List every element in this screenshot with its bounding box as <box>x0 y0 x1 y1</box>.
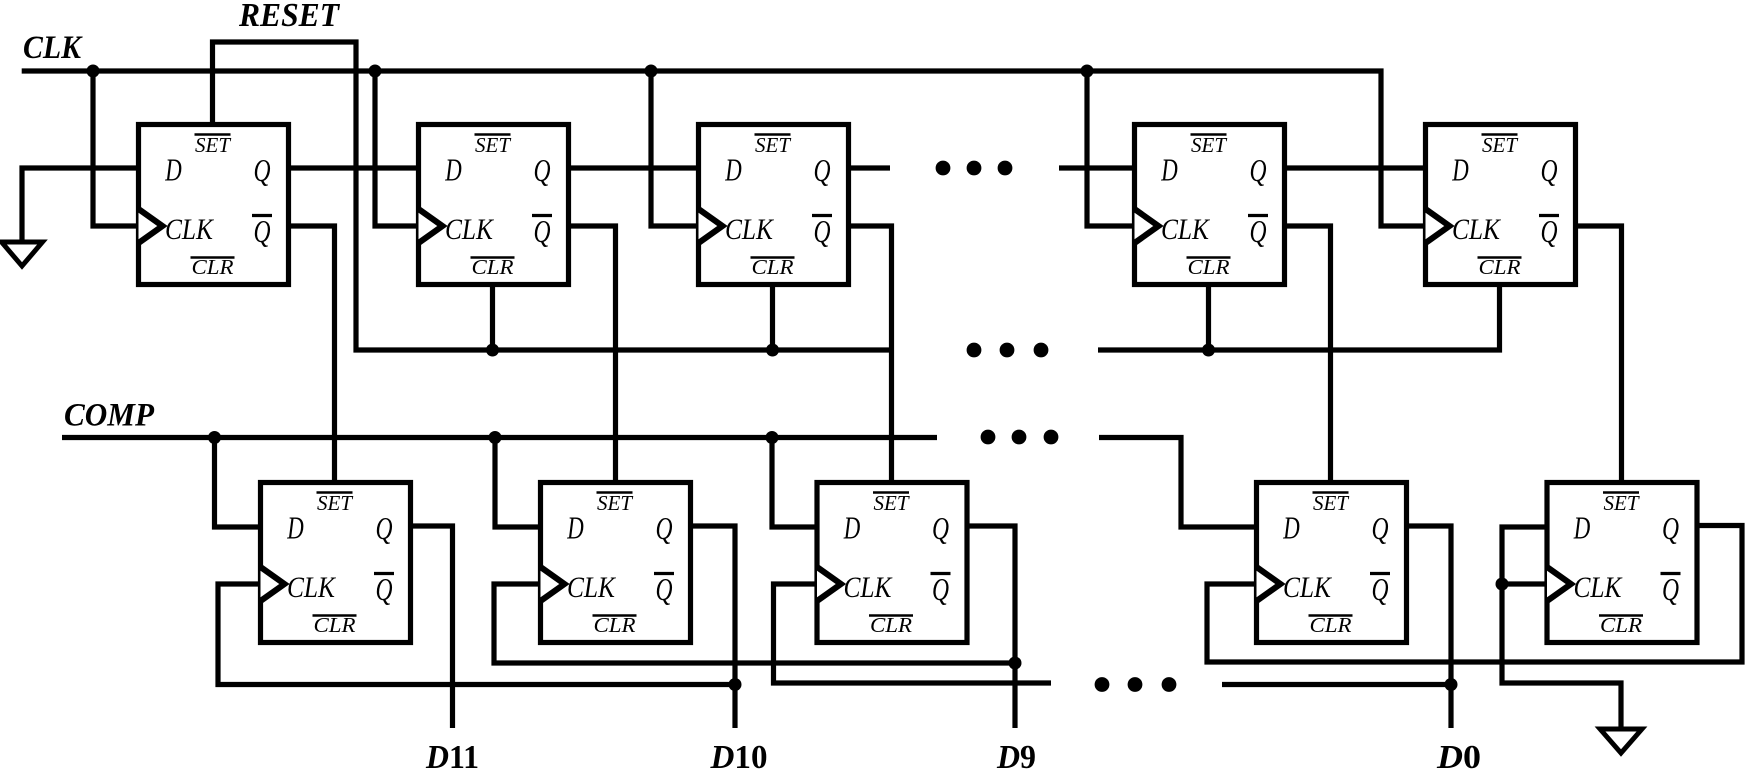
junction COMP/U6-D <box>208 431 221 444</box>
wire ellipsis to U4 D <box>1059 165 1133 170</box>
wire COMP bus right segment to U9 D <box>1099 438 1255 528</box>
wire U1 Qbar to U6 SET <box>289 226 335 481</box>
junction U7-clock/D9 <box>1009 657 1022 670</box>
svg-text:Q: Q <box>1662 510 1679 546</box>
svg-text:D10: D10 <box>710 739 768 775</box>
wire CLK to U3 clock <box>651 71 697 226</box>
wire COMP to U7 D <box>495 438 540 528</box>
D flip-flop U1 <box>139 125 289 285</box>
U7 pin label CLR (active-low overline) <box>593 614 637 617</box>
wire CLK bus (top horizontal, drops to U5 clock at right end) <box>22 71 1424 226</box>
svg-text:Q: Q <box>254 152 271 188</box>
junction RESET/U2-CLR <box>486 344 499 357</box>
junction RESET/U4-CLR <box>1202 344 1215 357</box>
U8 pin label CLR (active-low overline) <box>869 614 913 617</box>
U4 pin label Qbar <box>1248 214 1268 217</box>
U8 clock edge chevron <box>817 567 841 601</box>
junction CLK/U2 <box>369 65 382 78</box>
U3 pin label SET (active-low overline) <box>755 133 791 136</box>
U5 pin label SET (active-low overline) <box>1482 133 1518 136</box>
svg-text:CLR: CLR <box>472 255 514 279</box>
wire U4 Q to U5 D <box>1284 165 1424 170</box>
junction U6-clock/D10 <box>729 678 742 691</box>
junction CLK/U1 <box>87 65 100 78</box>
wire COMP bus (left segment) <box>62 435 937 440</box>
U9 pin label SET (active-low overline) <box>1313 491 1349 494</box>
svg-text:Q: Q <box>1250 152 1267 188</box>
wire COMP to U8 D <box>772 438 816 528</box>
svg-text:CLK: CLK <box>1574 571 1624 604</box>
wire U9 Q to node D0 <box>1405 526 1451 728</box>
svg-text:Q: Q <box>1662 571 1679 607</box>
U7 pin label SET (active-low overline) <box>597 491 633 494</box>
svg-text:CLK: CLK <box>1452 213 1502 246</box>
svg-text:Q: Q <box>254 213 271 249</box>
svg-text:CLK: CLK <box>445 213 495 246</box>
U5 pin label Qbar <box>1539 214 1559 217</box>
svg-text:CLK: CLK <box>1283 571 1333 604</box>
D flip-flop U9 <box>1257 483 1407 643</box>
ellipsis dots on CLR bus <box>967 343 982 358</box>
svg-text:CLR: CLR <box>1188 255 1230 279</box>
wire COMP to U6 D <box>215 438 260 528</box>
wire U2 Qbar to U7 SET <box>568 226 616 481</box>
D flip-flop U7 <box>541 483 691 643</box>
U2 pin label CLR (active-low overline) <box>471 256 515 259</box>
wire U10 clock stub <box>1502 581 1546 586</box>
D flip-flop U3 <box>699 125 849 285</box>
U9 pin label Qbar <box>1370 572 1390 575</box>
svg-text:Q: Q <box>814 213 831 249</box>
U9 clock edge chevron <box>1257 567 1281 601</box>
U1 pin label CLR (active-low overline) <box>191 256 235 259</box>
svg-text:D: D <box>1573 510 1590 546</box>
svg-text:CLK: CLK <box>844 571 894 604</box>
U6 clock edge chevron <box>261 567 285 601</box>
U8 pin label SET (active-low overline) <box>873 491 909 494</box>
svg-text:D: D <box>725 152 742 188</box>
U10 pin label SET (active-low overline) <box>1603 491 1639 494</box>
wire U2 CLR drop <box>490 284 495 350</box>
U2 clock edge chevron <box>419 209 443 243</box>
svg-text:CLR: CLR <box>1479 255 1521 279</box>
svg-text:CLK: CLK <box>23 30 83 66</box>
wire U3 CLR drop <box>770 284 775 350</box>
U5 pin label CLR (active-low overline) <box>1478 256 1522 259</box>
U10 pin label CLR (active-low overline) <box>1599 614 1643 617</box>
U9 pin label CLR (active-low overline) <box>1309 614 1353 617</box>
svg-text:Q: Q <box>656 571 673 607</box>
svg-text:Q: Q <box>376 571 393 607</box>
svg-text:D: D <box>843 510 860 546</box>
svg-text:Q: Q <box>534 152 551 188</box>
ellipsis dots on bottom clock loop <box>1095 677 1110 692</box>
wire U7 Q to node D10 <box>690 526 735 728</box>
svg-text:Q: Q <box>1372 571 1389 607</box>
D flip-flop U6 <box>261 483 411 643</box>
wire U3 Qbar to U8 SET <box>848 226 892 481</box>
svg-text:CLR: CLR <box>192 255 234 279</box>
U1 pin label Qbar <box>252 214 272 217</box>
svg-text:SET: SET <box>755 133 791 157</box>
svg-text:Q: Q <box>1250 213 1267 249</box>
wire U1 D input to ground <box>22 168 137 242</box>
wire bottom clock loop right part (from D0 line) <box>1222 682 1451 687</box>
U6 pin label SET (active-low overline) <box>317 491 353 494</box>
svg-text:CLR: CLR <box>314 613 356 637</box>
wire U8 Q to node D9 <box>966 526 1015 728</box>
U7 pin label Qbar <box>654 572 674 575</box>
wire RESET (U1 SET drop, top jog, down to CLR bus left half) <box>213 42 895 350</box>
wire U10 D and clock tied to ground <box>1502 527 1621 729</box>
wire U6 Q to node D11 <box>409 526 453 728</box>
svg-text:SET: SET <box>1191 133 1227 157</box>
junction RESET/U3-CLR <box>766 344 779 357</box>
U3 pin label Qbar <box>812 214 832 217</box>
ground symbol (left) <box>2 242 43 266</box>
D flip-flop U10 <box>1547 483 1697 643</box>
U8 pin label Qbar <box>931 572 951 575</box>
svg-text:CLK: CLK <box>287 571 337 604</box>
U1 pin label SET (active-low overline) <box>195 133 231 136</box>
U4 pin label CLR (active-low overline) <box>1187 256 1231 259</box>
D flip-flop U5 <box>1426 125 1576 285</box>
U4 pin label SET (active-low overline) <box>1191 133 1227 136</box>
svg-text:D: D <box>567 510 584 546</box>
U4 clock edge chevron <box>1135 209 1159 243</box>
svg-text:SET: SET <box>597 491 633 515</box>
U10 clock edge chevron <box>1547 567 1571 601</box>
U2 pin label Qbar <box>532 214 552 217</box>
svg-text:CLR: CLR <box>1600 613 1642 637</box>
D flip-flop U2 <box>419 125 569 285</box>
svg-text:SET: SET <box>475 133 511 157</box>
U10 pin label Qbar <box>1661 572 1681 575</box>
svg-text:SET: SET <box>1482 133 1518 157</box>
U7 clock edge chevron <box>541 567 565 601</box>
D flip-flop U4 <box>1135 125 1285 285</box>
wire RESET CLR bus right half (to U5 CLR) <box>1098 284 1500 350</box>
svg-text:CLR: CLR <box>752 255 794 279</box>
wire U9 clock loop (from U10 Q) <box>1207 526 1742 663</box>
svg-text:RESET: RESET <box>238 0 340 34</box>
junction CLK/U4 <box>1081 65 1094 78</box>
ellipsis dots on COMP bus <box>981 430 996 445</box>
wire U1 Q to U2 D <box>289 165 417 170</box>
svg-text:D: D <box>1161 152 1178 188</box>
svg-text:CLR: CLR <box>1310 613 1352 637</box>
svg-text:Q: Q <box>656 510 673 546</box>
svg-text:CLK: CLK <box>1161 213 1211 246</box>
wire U8 clock loop (left part, to ellipsis) <box>774 584 1052 683</box>
wire U4 CLR drop <box>1206 284 1211 350</box>
svg-text:Q: Q <box>1541 213 1558 249</box>
U5 clock edge chevron <box>1426 209 1450 243</box>
wire CLK to U1 clock <box>93 71 137 226</box>
U3 clock edge chevron <box>699 209 723 243</box>
svg-text:D: D <box>287 510 304 546</box>
svg-text:D0: D0 <box>1436 739 1481 775</box>
U6 pin label CLR (active-low overline) <box>313 614 357 617</box>
svg-text:Q: Q <box>1372 510 1389 546</box>
svg-text:Q: Q <box>534 213 551 249</box>
svg-text:CLK: CLK <box>567 571 617 604</box>
svg-text:D9: D9 <box>996 739 1036 775</box>
junction CLK/U3 <box>645 65 658 78</box>
U1 clock edge chevron <box>139 209 163 243</box>
wire CLK to U4 clock <box>1087 71 1133 226</box>
svg-text:Q: Q <box>814 152 831 188</box>
junction COMP/U7-D <box>489 431 502 444</box>
U2 pin label SET (active-low overline) <box>475 133 511 136</box>
svg-text:CLR: CLR <box>594 613 636 637</box>
ellipsis dots on shift chain <box>936 161 951 176</box>
wire U7 clock loop (from D9 line) <box>494 584 1015 663</box>
svg-text:CLK: CLK <box>725 213 775 246</box>
svg-text:CLK: CLK <box>165 213 215 246</box>
svg-text:SET: SET <box>874 491 910 515</box>
svg-text:Q: Q <box>1541 152 1558 188</box>
wire U6 clock loop (from D10 line) <box>218 584 735 685</box>
wire CLK to U2 clock <box>375 71 417 226</box>
junction COMP/U8-D <box>766 431 779 444</box>
wire U3 Q stub (to ellipsis) <box>848 165 890 170</box>
svg-text:SET: SET <box>1313 491 1349 515</box>
svg-text:SET: SET <box>317 491 353 515</box>
svg-text:D: D <box>165 152 182 188</box>
U6 pin label Qbar <box>374 572 394 575</box>
svg-text:SET: SET <box>1604 491 1640 515</box>
junction clock-loop/D0 <box>1445 678 1458 691</box>
D flip-flop U8 <box>817 483 967 643</box>
ground symbol (right) <box>1600 729 1642 753</box>
svg-text:Q: Q <box>376 510 393 546</box>
U3 pin label CLR (active-low overline) <box>751 256 795 259</box>
svg-text:Q: Q <box>932 510 949 546</box>
svg-text:Q: Q <box>932 571 949 607</box>
svg-text:D: D <box>445 152 462 188</box>
junction U10 D/clock <box>1496 578 1509 591</box>
svg-text:D11: D11 <box>425 739 479 775</box>
svg-text:SET: SET <box>195 133 231 157</box>
wire U2 Q to U3 D <box>568 165 697 170</box>
svg-text:D: D <box>1452 152 1469 188</box>
svg-text:COMP: COMP <box>64 398 155 434</box>
wire U4 Qbar to U9 SET <box>1284 226 1331 481</box>
svg-text:D: D <box>1283 510 1300 546</box>
wire U5 Qbar to U10 SET <box>1575 226 1622 481</box>
svg-text:CLR: CLR <box>870 613 912 637</box>
